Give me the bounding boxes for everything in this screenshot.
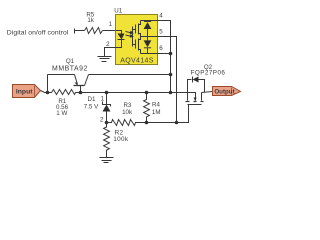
LED D-U1 cathode lead to pin 2 bbox=[116, 40, 122, 48]
wire R5 to U1 pin 1 bbox=[103, 30, 116, 32]
LED D-U1 cathode bar bbox=[118, 39, 125, 41]
junction Q1 base / R1 right bbox=[79, 91, 83, 95]
junction drain bus / source rail bbox=[169, 91, 173, 95]
LED D-U1 anode lead bbox=[116, 31, 122, 34]
label 7.5 V bbox=[84, 104, 99, 111]
mosfet M1 body diode cathode bar bbox=[144, 21, 151, 23]
label 100k bbox=[113, 136, 129, 143]
svg-text:U1: U1 bbox=[114, 8, 122, 15]
LED D-U1 triangle bbox=[118, 34, 125, 40]
label 1M bbox=[152, 109, 161, 116]
transistor Q2 channel segments bbox=[186, 101, 204, 103]
label R2 bbox=[115, 129, 124, 136]
transistor Q1 base bar bbox=[74, 85, 85, 87]
wire Q1 emitter horizontal bbox=[48, 74, 75, 76]
label U1 bbox=[114, 8, 122, 15]
svg-text:1M: 1M bbox=[152, 109, 161, 116]
pin number 2 (D1) bbox=[100, 117, 104, 124]
resistor R2 (vertical) bbox=[104, 123, 110, 158]
transistor Q2 gate bar bbox=[188, 104, 202, 106]
junction R4 bottom bbox=[145, 121, 149, 125]
mosfet M2 drain lead bbox=[139, 50, 141, 54]
light arrow a bbox=[126, 32, 131, 33]
svg-text:2: 2 bbox=[106, 41, 110, 48]
pin number 4 (U1) bbox=[159, 12, 163, 19]
transistor Q1 emitter diagonal with arrow bbox=[75, 75, 78, 85]
zener D1 triangle (points up) bbox=[103, 105, 111, 112]
svg-text:1 W: 1 W bbox=[56, 110, 67, 117]
zener D1 cathode lead bbox=[106, 93, 108, 105]
zener D1 anode lead bbox=[106, 112, 108, 123]
pin number 1 (D1) bbox=[101, 96, 105, 103]
wire pin5 down to gate rail bbox=[158, 37, 177, 123]
svg-text:AQV414S: AQV414S bbox=[120, 58, 154, 65]
junction input node bbox=[46, 91, 50, 95]
output arrow flag bbox=[213, 87, 241, 96]
svg-text:4: 4 bbox=[159, 12, 163, 19]
mosfet M1 (top, inside U1) gate bar bbox=[135, 25, 137, 34]
transistor Q1 collector diagonal bbox=[85, 75, 89, 86]
mosfet M1 body diode lead from pin4 wire bbox=[147, 21, 149, 22]
transistor Q1 base lead bbox=[80, 86, 82, 93]
photo-gate common line bbox=[132, 27, 134, 47]
label D1 bbox=[88, 96, 96, 103]
zener D1 cathode bar with hooks bbox=[103, 102, 111, 107]
wire pin6 to drain bus bbox=[158, 53, 171, 55]
label FQP27P06 bbox=[191, 70, 226, 77]
svg-text:10k: 10k bbox=[122, 109, 133, 116]
resistor R3 (horizontal) bbox=[107, 120, 147, 126]
body diode Q2 cathode bar bbox=[192, 77, 194, 83]
light arrow b bbox=[126, 35, 131, 36]
transistor Q2 drain leg bbox=[201, 93, 203, 101]
junction drain bus / Q1 collector bbox=[169, 73, 173, 77]
svg-text:1: 1 bbox=[101, 96, 105, 103]
wire Q1 collector to drain bus bbox=[89, 74, 171, 76]
label 1k bbox=[87, 17, 94, 24]
pin number 2 (U1) bbox=[106, 41, 110, 48]
mosfet M2 source lead bbox=[139, 37, 141, 40]
wire control-to-R5 bbox=[75, 30, 85, 32]
label 0.56 bbox=[56, 104, 69, 111]
wire input node up to Q1 emitter bbox=[47, 75, 49, 93]
svg-text:Q1: Q1 bbox=[66, 58, 75, 65]
mosfet M2 body diode triangle (points down) bbox=[144, 40, 152, 47]
mosfet M1 channel bar bbox=[138, 24, 140, 35]
wire source rail R1 to Q2 bbox=[81, 92, 188, 94]
transistor Q2 source leg bbox=[187, 93, 189, 101]
wire pin4 to drain bus bbox=[158, 21, 171, 93]
label Q1 bbox=[66, 58, 75, 65]
junction pin6/pin4 bus bbox=[169, 52, 173, 56]
wire pin4 inside U1 bbox=[141, 20, 158, 22]
svg-text:D1: D1 bbox=[88, 96, 96, 103]
svg-text:Digital on/off control: Digital on/off control bbox=[7, 30, 69, 37]
label MMBTA92 bbox=[52, 66, 88, 73]
mosfet M2 (bottom, inside U1) gate bar bbox=[135, 40, 137, 49]
ground (R2) bbox=[100, 158, 114, 163]
junction D1 anode / R2 / R3 bbox=[105, 121, 109, 125]
label Output bbox=[214, 88, 234, 95]
label AQV414S bbox=[120, 58, 154, 65]
mosfet M2 body diode anode lead bbox=[147, 37, 149, 41]
svg-text:100k: 100k bbox=[113, 136, 129, 143]
transistor Q2 substrate leg with arrow bbox=[188, 93, 196, 99]
label R4 bbox=[152, 102, 160, 109]
transistor Q2 gate lead bbox=[188, 105, 190, 123]
wire U1 pin2 to ground bbox=[105, 48, 116, 57]
body diode Q2 left lead bbox=[188, 80, 192, 93]
mosfet M2 body diode cathode bar bbox=[144, 47, 151, 49]
input flag tip seam bbox=[34, 86, 36, 97]
label Input bbox=[16, 89, 33, 96]
wire Q2 drain to output bbox=[202, 92, 213, 93]
svg-text:Output: Output bbox=[214, 88, 234, 95]
wire pin6 inside U1 bbox=[141, 53, 158, 55]
mosfet M1 body diode triangle (points up) bbox=[144, 22, 152, 29]
svg-text:R4: R4 bbox=[152, 102, 160, 109]
node tick: control input terminal bbox=[74, 29, 76, 34]
mosfet M1 drain lead bbox=[139, 21, 141, 25]
svg-text:Input: Input bbox=[16, 89, 33, 96]
pin number 1 (U1) bbox=[109, 21, 113, 28]
body diode Q2 right lead bbox=[199, 80, 205, 93]
mosfet M1 body diode anode lead bbox=[147, 29, 149, 37]
wire input to junction bbox=[41, 91, 48, 93]
svg-text:FQP27P06: FQP27P06 bbox=[191, 70, 226, 77]
pin number 6 (U1) bbox=[159, 45, 163, 52]
mosfet M2 channel bar bbox=[138, 39, 140, 51]
body diode Q2 triangle (points left) bbox=[193, 77, 199, 83]
label: Digital on/off control bbox=[7, 30, 69, 37]
svg-text:6: 6 bbox=[159, 45, 163, 52]
svg-text:1: 1 bbox=[109, 21, 113, 28]
ground (U1 pin2) bbox=[98, 57, 112, 62]
wire pin5 inside U1 bbox=[141, 36, 158, 38]
mosfet M1 source lead bbox=[139, 34, 141, 37]
label R3 bbox=[123, 102, 131, 109]
svg-text:5: 5 bbox=[159, 28, 163, 35]
wire gate rail to Q2 gate bbox=[147, 105, 189, 123]
resistor R4 (vertical) bbox=[144, 93, 150, 123]
label R1 bbox=[58, 98, 66, 105]
label 1 W bbox=[56, 110, 67, 117]
resistor R5 bbox=[85, 28, 103, 34]
svg-text:MMBTA92: MMBTA92 bbox=[52, 66, 88, 73]
output flag tip seam bbox=[231, 88, 233, 95]
junction pin5 rail / gate rail bbox=[175, 121, 179, 125]
op-coupler U1 body bbox=[116, 15, 158, 65]
resistor R1 bbox=[48, 90, 81, 95]
svg-text:7.5 V: 7.5 V bbox=[84, 104, 99, 111]
label R5 bbox=[86, 11, 94, 18]
junction D1 top bbox=[105, 91, 109, 95]
label 10k bbox=[122, 109, 133, 116]
input arrow flag bbox=[13, 85, 41, 98]
label Q2 bbox=[204, 64, 213, 71]
svg-text:1k: 1k bbox=[87, 17, 94, 24]
svg-text:2: 2 bbox=[100, 117, 104, 124]
pin number 5 (U1) bbox=[159, 28, 163, 35]
svg-text:R3: R3 bbox=[123, 102, 131, 109]
junction R4 top bbox=[145, 91, 149, 95]
mosfet M2 body diode lead to pin6 wire bbox=[147, 48, 149, 54]
